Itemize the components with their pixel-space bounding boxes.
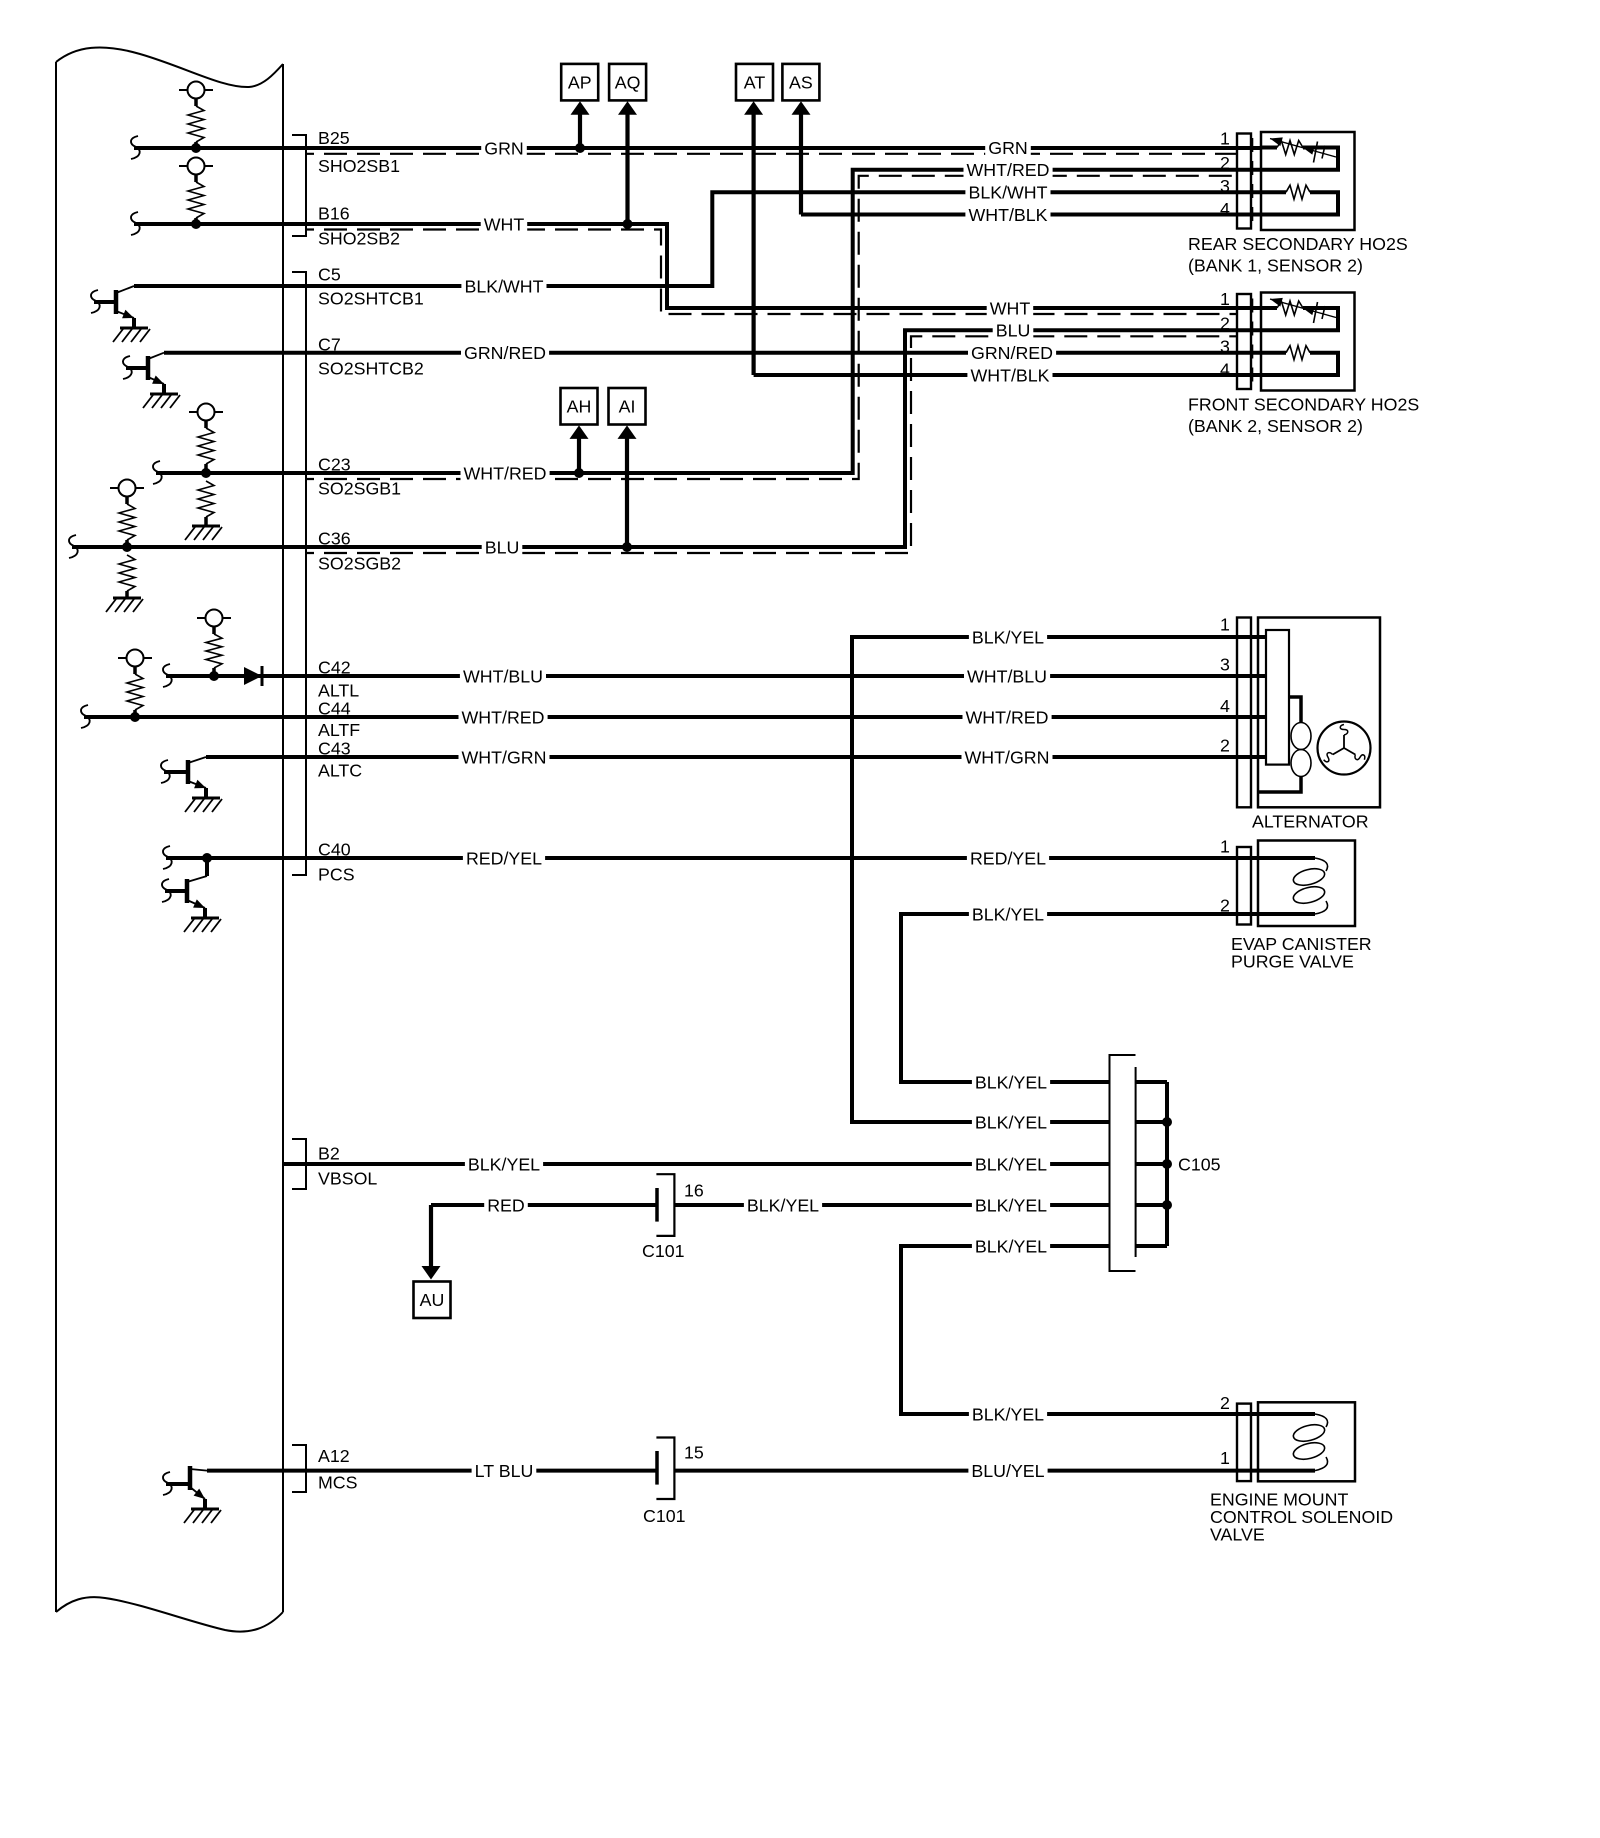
ground at transistor emitter bbox=[143, 394, 180, 408]
wire colour label BLU bbox=[482, 537, 523, 558]
svg-text:BLU: BLU bbox=[996, 321, 1031, 341]
svg-text:AQ: AQ bbox=[615, 73, 641, 93]
alternator connector (harness side) bbox=[1237, 618, 1251, 808]
svg-text:A12: A12 bbox=[318, 1446, 350, 1466]
alternator outline box bbox=[1258, 618, 1380, 808]
svg-text:C101: C101 bbox=[643, 1506, 686, 1526]
svg-text:SHO2SB1: SHO2SB1 bbox=[318, 156, 400, 176]
internal pull-up resistor at pin C44 bbox=[118, 650, 152, 675]
svg-text:BLK/YEL: BLK/YEL bbox=[975, 1072, 1047, 1092]
svg-text:RED/YEL: RED/YEL bbox=[466, 848, 542, 868]
off-page reference AT bbox=[736, 64, 773, 101]
sensor heater resistor bbox=[1261, 346, 1338, 375]
off-page reference AI bbox=[609, 388, 646, 425]
connector C101 cavity 15 bbox=[656, 1438, 674, 1500]
diode on C42 wire bbox=[244, 666, 262, 686]
junction dot AI on BLU wire bbox=[622, 542, 632, 552]
junction dot C44 bbox=[130, 712, 140, 722]
svg-text:SO2SHTCB2: SO2SHTCB2 bbox=[318, 358, 424, 378]
svg-text:AP: AP bbox=[568, 73, 592, 93]
svg-text:2: 2 bbox=[1220, 153, 1230, 173]
svg-text:1: 1 bbox=[1220, 128, 1230, 148]
svg-text:AS: AS bbox=[789, 73, 813, 93]
svg-text:WHT/BLU: WHT/BLU bbox=[463, 666, 543, 686]
wire colour label GRN bbox=[985, 137, 1031, 158]
wire B25 GRN to rear HO2S pin 1 bbox=[131, 136, 140, 159]
engine mount solenoid box bbox=[1258, 1402, 1355, 1481]
svg-text:1: 1 bbox=[1220, 836, 1230, 856]
wire colour label GRN bbox=[481, 138, 527, 159]
svg-text:ALTL: ALTL bbox=[318, 680, 359, 700]
off-page reference AS bbox=[782, 64, 819, 101]
svg-text:FRONT SECONDARY HO2S: FRONT SECONDARY HO2S bbox=[1188, 394, 1419, 414]
svg-text:GRN: GRN bbox=[988, 138, 1028, 158]
wire colour label WHT/BLK bbox=[965, 204, 1050, 225]
junction dot AH on WHT/RED wire bbox=[574, 468, 584, 478]
sensor heater resistor bbox=[1261, 185, 1338, 214]
wire C42 WHT/BLU to alternator pin 3 bbox=[163, 664, 172, 687]
svg-text:RED: RED bbox=[487, 1195, 525, 1215]
alternator field coil bbox=[1258, 697, 1311, 792]
wire B2 BLK/YEL to C105 bbox=[283, 1162, 1110, 1166]
ground below C23 resistor bbox=[185, 526, 222, 540]
svg-text:WHT/RED: WHT/RED bbox=[462, 707, 545, 727]
EVAP purge valve solenoid coil bbox=[1261, 858, 1328, 914]
svg-text:C44: C44 bbox=[318, 698, 351, 718]
wire colour label BLK/YEL bbox=[969, 627, 1047, 648]
svg-text:BLK/YEL: BLK/YEL bbox=[975, 1112, 1047, 1132]
internal pull-up resistor at pin B25 bbox=[179, 82, 213, 107]
connector sensor side line bbox=[1252, 299, 1254, 385]
svg-text:C43: C43 bbox=[318, 738, 351, 758]
alternator stator (3-phase) bbox=[1318, 722, 1371, 775]
internal resistor to ground at pin C23 bbox=[198, 481, 214, 517]
svg-text:C36: C36 bbox=[318, 528, 351, 548]
svg-text:SO2SGB1: SO2SGB1 bbox=[318, 478, 401, 498]
wire C7 GRN/RED to front HO2S pin 3 bbox=[164, 351, 1261, 355]
shield dash for WHT/RED wire bbox=[307, 176, 1238, 479]
svg-text:SHO2SB2: SHO2SB2 bbox=[318, 228, 400, 248]
wire colour label BLK/YEL bbox=[972, 1154, 1050, 1175]
wire C40 RED/YEL to EVAP purge valve pin 1 bbox=[163, 846, 172, 869]
wire colour label WHT/RED bbox=[459, 707, 548, 728]
junction dot AP on GRN wire bbox=[575, 143, 585, 153]
wire C36 BLU to front HO2S pin 2 bbox=[69, 535, 78, 558]
svg-text:C105: C105 bbox=[1178, 1154, 1221, 1174]
internal pull-up resistor at pin C36 bbox=[110, 480, 144, 505]
junction dot AQ on WHT wire bbox=[623, 219, 633, 229]
internal driver transistor at pin C5 bbox=[94, 286, 134, 328]
internal driver transistor at pin C7 bbox=[126, 353, 164, 394]
wire colour label WHT/RED bbox=[461, 463, 550, 484]
svg-text:C42: C42 bbox=[318, 657, 351, 677]
wire colour label BLK/WHT bbox=[461, 276, 546, 297]
svg-text:GRN/RED: GRN/RED bbox=[464, 343, 546, 363]
ground at transistor emitter bbox=[185, 798, 222, 812]
ECM/PCM box outline (torn edges) bbox=[56, 47, 283, 1631]
svg-text:3: 3 bbox=[1220, 176, 1230, 196]
svg-text:16: 16 bbox=[684, 1180, 704, 1200]
wire colour label WHT/RED bbox=[963, 707, 1052, 728]
svg-text:GRN/RED: GRN/RED bbox=[971, 343, 1053, 363]
wire colour label BLK/YEL bbox=[744, 1195, 822, 1216]
svg-text:1: 1 bbox=[1220, 1448, 1230, 1468]
wire colour label GRN/RED bbox=[461, 342, 549, 363]
svg-text:PURGE VALVE: PURGE VALVE bbox=[1231, 951, 1354, 971]
internal pull-up resistor at pin B16 bbox=[179, 158, 213, 183]
wire C43 WHT/GRN to alternator pin 2 bbox=[206, 755, 1266, 759]
junction dot C23 bbox=[201, 468, 211, 478]
svg-text:SO2SGB2: SO2SGB2 bbox=[318, 553, 401, 573]
svg-text:RED/YEL: RED/YEL bbox=[970, 848, 1046, 868]
wire C105 to engine mount solenoid pin 2 BLK/YEL bbox=[901, 1246, 1261, 1414]
svg-text:3: 3 bbox=[1220, 337, 1230, 357]
svg-text:15: 15 bbox=[684, 1442, 704, 1462]
junction dot C36 bbox=[122, 542, 132, 552]
wire colour label LT BLU bbox=[472, 1460, 537, 1481]
wire colour label BLK/YEL bbox=[465, 1154, 543, 1175]
svg-text:GRN: GRN bbox=[484, 138, 524, 158]
wire colour label GRN/RED bbox=[968, 342, 1056, 363]
svg-text:WHT: WHT bbox=[484, 214, 525, 234]
junction dot C42 bbox=[209, 671, 219, 681]
connector to sensor (harness side) bbox=[1237, 294, 1251, 389]
svg-text:C5: C5 bbox=[318, 264, 341, 284]
svg-text:2: 2 bbox=[1220, 314, 1230, 334]
svg-text:2: 2 bbox=[1220, 735, 1230, 755]
svg-text:BLK/YEL: BLK/YEL bbox=[975, 1236, 1047, 1256]
wire colour label BLK/YEL bbox=[972, 1072, 1050, 1093]
svg-text:4: 4 bbox=[1220, 696, 1230, 716]
internal resistor to ground at pin C36 bbox=[119, 555, 135, 591]
svg-text:3: 3 bbox=[1220, 654, 1230, 674]
wire colour label WHT/GRN bbox=[459, 747, 550, 768]
sensor outline box bbox=[1261, 132, 1355, 230]
svg-text:AI: AI bbox=[619, 397, 636, 417]
svg-text:2: 2 bbox=[1220, 1393, 1230, 1413]
wire colour label BLK/YEL bbox=[969, 904, 1047, 925]
svg-text:BLK/YEL: BLK/YEL bbox=[975, 1154, 1047, 1174]
wire colour label BLK/YEL bbox=[972, 1195, 1050, 1216]
EVAP canister purge valve box bbox=[1258, 841, 1355, 927]
svg-text:2: 2 bbox=[1220, 895, 1230, 915]
junction dot C40/PCS bbox=[202, 853, 212, 863]
svg-text:C7: C7 bbox=[318, 334, 341, 354]
svg-text:BLK/YEL: BLK/YEL bbox=[972, 904, 1044, 924]
svg-text:1: 1 bbox=[1220, 614, 1230, 634]
svg-text:ALTC: ALTC bbox=[318, 760, 362, 780]
connector to sensor (harness side) bbox=[1237, 134, 1251, 229]
svg-text:BLU: BLU bbox=[485, 537, 520, 557]
wire colour label WHT/BLU bbox=[964, 666, 1050, 687]
svg-text:WHT/BLK: WHT/BLK bbox=[970, 365, 1049, 385]
ground at transistor emitter bbox=[184, 918, 221, 932]
wire BLK/YEL from C101 pin 16 to C105 bbox=[674, 1203, 1109, 1207]
svg-text:C40: C40 bbox=[318, 839, 351, 859]
junction dot C105 bus at BLK/YEL 4 bbox=[1162, 1200, 1172, 1210]
connector sensor side line bbox=[1252, 138, 1254, 224]
wire colour label WHT/BLU bbox=[460, 666, 546, 687]
svg-text:WHT/RED: WHT/RED bbox=[967, 160, 1050, 180]
connector bracket B2 bbox=[292, 1139, 306, 1189]
off-page reference AH bbox=[561, 388, 598, 425]
wire rear HO2S pin 4 WHT/BLK from AS bbox=[801, 213, 1261, 217]
alternator regulator block bbox=[1266, 630, 1289, 765]
wire colour label RED/YEL bbox=[967, 848, 1049, 869]
svg-text:AT: AT bbox=[744, 73, 766, 93]
svg-text:C23: C23 bbox=[318, 454, 351, 474]
svg-text:WHT/BLK: WHT/BLK bbox=[968, 205, 1047, 225]
svg-text:AU: AU bbox=[420, 1290, 445, 1310]
wire colour label BLU bbox=[993, 320, 1034, 341]
svg-text:BLU/YEL: BLU/YEL bbox=[971, 1461, 1044, 1481]
wire colour label BLK/WHT bbox=[965, 182, 1050, 203]
svg-text:ALTF: ALTF bbox=[318, 720, 360, 740]
off-page reference AP bbox=[561, 64, 598, 101]
svg-text:LT BLU: LT BLU bbox=[475, 1461, 534, 1481]
internal driver transistor at pin A12 MCS bbox=[166, 1466, 207, 1509]
ground below C36 resistor bbox=[106, 598, 143, 612]
connector C101 cavity 16 bbox=[656, 1174, 674, 1236]
svg-text:BLK/WHT: BLK/WHT bbox=[464, 276, 543, 296]
off-page reference AQ bbox=[609, 64, 646, 101]
connector bracket B25/B16 group bbox=[292, 135, 306, 236]
svg-text:BLK/WHT: BLK/WHT bbox=[968, 183, 1047, 203]
wire A12 LT BLU to C101 pin 15 bbox=[207, 1469, 656, 1473]
svg-text:4: 4 bbox=[1220, 359, 1230, 379]
C105 common bus bbox=[1165, 1082, 1169, 1246]
svg-text:BLK/YEL: BLK/YEL bbox=[972, 1404, 1044, 1424]
wire colour label BLK/YEL bbox=[969, 1404, 1047, 1425]
svg-text:BLK/YEL: BLK/YEL bbox=[468, 1154, 540, 1174]
connector C105 harness side bbox=[1110, 1055, 1136, 1271]
wire colour label BLU/YEL bbox=[968, 1460, 1047, 1481]
connector bracket C5..C40 group bbox=[292, 272, 306, 875]
wire EVAP purge valve pin 2 BLK/YEL down to C105 bbox=[901, 914, 1261, 1082]
junction dot B25 bbox=[191, 143, 201, 153]
svg-text:BLK/YEL: BLK/YEL bbox=[975, 1195, 1047, 1215]
connector bracket A12 bbox=[292, 1445, 306, 1492]
svg-text:REAR SECONDARY HO2S: REAR SECONDARY HO2S bbox=[1188, 234, 1408, 254]
internal driver transistor at pin C40 PCS bbox=[205, 858, 209, 876]
svg-text:MCS: MCS bbox=[318, 1472, 358, 1492]
svg-text:ALTERNATOR: ALTERNATOR bbox=[1252, 811, 1369, 831]
sensor element with heater bbox=[1261, 298, 1338, 330]
wire front HO2S pin 4 WHT/BLK from AT bbox=[754, 373, 1261, 377]
C105 bus stubs bbox=[1136, 1080, 1167, 1084]
junction dot C105 bus at BLK/YEL 2 bbox=[1162, 1117, 1172, 1127]
wire colour label RED bbox=[484, 1195, 528, 1216]
svg-text:BLK/YEL: BLK/YEL bbox=[747, 1195, 819, 1215]
svg-text:SO2SHTCB1: SO2SHTCB1 bbox=[318, 288, 424, 308]
wire C44 WHT/RED to alternator pin 4 bbox=[81, 705, 90, 728]
ground at transistor emitter bbox=[113, 328, 150, 342]
wire RED from AU junction to C101 pin 16 bbox=[431, 1203, 656, 1207]
wire B16 WHT to front HO2S pin 1 bbox=[131, 212, 140, 235]
wire colour label WHT/RED bbox=[964, 159, 1053, 180]
svg-text:B2: B2 bbox=[318, 1143, 340, 1163]
sensor element with heater bbox=[1261, 137, 1338, 169]
off-page reference AU with down arrow bbox=[429, 1205, 433, 1267]
svg-text:WHT: WHT bbox=[990, 298, 1031, 318]
EVAP canister purge valve connector bbox=[1237, 847, 1251, 925]
wire C5 BLK/WHT to rear HO2S pin 3 bbox=[134, 192, 1261, 286]
sensor outline box bbox=[1261, 293, 1355, 391]
svg-text:VALVE: VALVE bbox=[1210, 1524, 1265, 1544]
wire colour label BLK/YEL bbox=[972, 1236, 1050, 1257]
shield dash for WHT wire bbox=[307, 230, 1238, 315]
wire colour label WHT/BLK bbox=[967, 365, 1052, 386]
internal driver transistor at pin C43 bbox=[164, 757, 206, 798]
svg-text:C101: C101 bbox=[642, 1241, 685, 1261]
svg-text:WHT/RED: WHT/RED bbox=[464, 463, 547, 483]
wire colour label RED/YEL bbox=[463, 848, 545, 869]
wire alternator pin 1 BLK/YEL down to C105 bbox=[852, 637, 1266, 1122]
svg-text:WHT/RED: WHT/RED bbox=[966, 707, 1049, 727]
shield dash for GRN wire bbox=[307, 153, 1238, 155]
svg-text:(BANK 2, SENSOR 2): (BANK 2, SENSOR 2) bbox=[1188, 416, 1363, 436]
wire colour label WHT bbox=[987, 298, 1033, 319]
internal pull-up resistor at pin C42 bbox=[197, 610, 231, 635]
internal pull-up resistor at pin C23 bbox=[189, 404, 223, 429]
svg-text:WHT/BLU: WHT/BLU bbox=[967, 666, 1047, 686]
svg-text:WHT/GRN: WHT/GRN bbox=[462, 747, 547, 767]
svg-text:4: 4 bbox=[1220, 199, 1230, 219]
engine mount solenoid coil bbox=[1261, 1414, 1328, 1471]
connector C105 device side bbox=[1135, 1067, 1137, 1257]
svg-text:WHT/GRN: WHT/GRN bbox=[965, 747, 1050, 767]
svg-text:B25: B25 bbox=[318, 128, 350, 148]
wire colour label WHT/GRN bbox=[962, 747, 1053, 768]
wire BLU/YEL from C101 pin 15 to solenoid pin 1 bbox=[674, 1469, 1261, 1473]
wire colour label BLK/YEL bbox=[972, 1112, 1050, 1133]
svg-text:PCS: PCS bbox=[318, 864, 355, 884]
svg-text:AH: AH bbox=[567, 397, 592, 417]
svg-text:BLK/YEL: BLK/YEL bbox=[972, 627, 1044, 647]
junction dot B16 bbox=[191, 219, 201, 229]
shield dash for BLU wire bbox=[307, 336, 1238, 553]
engine mount solenoid connector bbox=[1237, 1404, 1251, 1482]
svg-text:(BANK 1, SENSOR 2): (BANK 1, SENSOR 2) bbox=[1188, 255, 1363, 275]
svg-text:1: 1 bbox=[1220, 289, 1230, 309]
wire colour label WHT bbox=[481, 214, 528, 235]
svg-text:B16: B16 bbox=[318, 203, 350, 223]
svg-text:VBSOL: VBSOL bbox=[318, 1168, 377, 1188]
wire C23 WHT/RED to rear HO2S pin 2 bbox=[153, 461, 162, 484]
ground at transistor emitter bbox=[184, 1509, 221, 1523]
junction dot C105 bus at BLK/YEL 3 bbox=[1162, 1159, 1172, 1169]
